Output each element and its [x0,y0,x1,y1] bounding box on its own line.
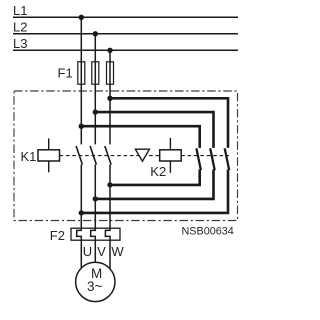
wire K2 branch from L3 (top) [110,98,228,148]
wire K2 branch from L2 (top) [95,112,213,148]
fuse F1 phase 2 [92,62,99,84]
fuse F1 phase 3 [107,62,114,84]
svg-text:F2: F2 [50,228,65,243]
wire K2 branch return to W (bottom) [110,170,200,185]
svg-text:L3: L3 [13,36,27,51]
wire through fuse 3 [109,62,111,85]
wire K2 branch from L1 (top) [81,126,199,148]
node branch bottom V [93,196,98,201]
wire K2 branch return to V (bottom) [95,170,213,199]
node branch top L2 [93,109,98,114]
overload relay F2 box [71,228,120,240]
coil K1 [38,138,60,172]
mechanism dashed line K1-K2 [60,155,230,157]
svg-text:L1: L1 [13,3,27,18]
svg-text:K2: K2 [150,164,166,179]
svg-text:V: V [97,244,106,259]
fuse F1 phase 1 [78,62,85,84]
enclosure frame (dash-dot) [14,91,238,221]
contact K2 phase 3 blade [225,148,230,170]
wire phase U vertical (L1 to motor) [77,17,82,268]
node L2 junction [93,31,98,36]
wire phase V vertical (L2 to motor) [91,34,96,262]
svg-text:3~: 3~ [87,279,103,294]
node L3 junction [107,48,112,53]
wire L3 [13,49,238,51]
svg-text:W: W [111,244,124,259]
wire L2 [13,33,238,35]
wire phase W vertical (L3 to motor) [105,50,110,269]
svg-text:NSB00634: NSB00634 [182,225,234,237]
mechanical interlock triangle [135,149,149,161]
contact K1 phase 2 blade [90,146,96,165]
node branch top L3 [107,96,112,101]
svg-text:U: U [83,244,92,259]
wire K2 branch return to U (bottom) [81,170,228,213]
svg-text:K1: K1 [21,149,37,164]
contact gap masks K1 [79,144,112,164]
node branch bottom U [79,210,84,215]
svg-text:F1: F1 [58,65,73,80]
wire through fuse 1 [80,62,82,85]
coil K2 [160,138,182,173]
motor M1 circle [76,262,115,301]
contact K1 phase 3 blade [105,146,111,165]
node L1 junction [79,15,84,20]
contact K2 phase 2 blade [210,148,215,170]
wire through fuse 2 [94,62,96,85]
node branch top L1 [79,124,84,129]
node branch bottom W [107,182,112,187]
svg-text:L2: L2 [13,20,27,35]
contact K2 phase 1 blade [196,148,201,170]
contact K1 phase 1 blade [76,146,82,165]
wire L1 [13,16,238,18]
